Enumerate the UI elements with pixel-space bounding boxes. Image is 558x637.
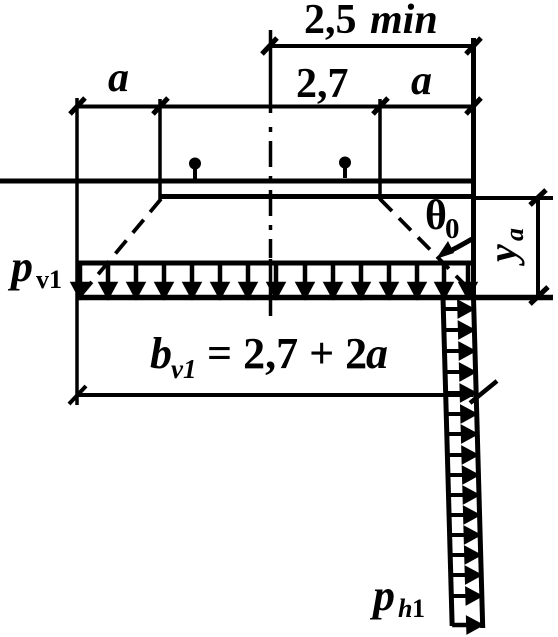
svg-text:a: a bbox=[500, 228, 529, 241]
ground line bbox=[0, 179, 474, 184]
svg-text:a: a bbox=[366, 329, 388, 378]
svg-text:0: 0 bbox=[445, 213, 460, 245]
svg-text:2,5: 2,5 bbox=[304, 0, 357, 43]
svg-text:θ: θ bbox=[425, 193, 447, 239]
left dashed spread line bbox=[80, 199, 161, 296]
svg-text:v1: v1 bbox=[36, 265, 62, 294]
tick bottom end y_a bbox=[530, 287, 548, 304]
extension / wall back face x=473.5 (upper part) bbox=[471, 38, 476, 300]
svg-text:b: b bbox=[150, 329, 172, 378]
svg-text:a: a bbox=[108, 55, 129, 101]
y_a top extension line bbox=[474, 196, 554, 200]
extension line x=380 bbox=[378, 99, 382, 200]
wall bottom line bbox=[452, 623, 484, 628]
label y_a (rotated) bbox=[480, 228, 529, 266]
extension line x=160 bbox=[158, 99, 162, 200]
p_v1 load band top line bbox=[77, 261, 474, 266]
p_h1 arrows bbox=[445, 303, 480, 632]
center line (track axis, dash-dot) bbox=[269, 30, 273, 113]
wall group (slight scan tilt) bbox=[443, 298, 484, 632]
svg-text:2,7: 2,7 bbox=[296, 61, 349, 107]
svg-text:y: y bbox=[480, 244, 525, 266]
dimension line a | 2,7 | a bbox=[77, 105, 474, 109]
tick right end b_v1 bbox=[470, 381, 497, 403]
b_v1 dimension line bbox=[77, 393, 474, 397]
tick at x=473 bbox=[466, 98, 481, 114]
svg-text:= 2,7 + 2: = 2,7 + 2 bbox=[207, 329, 367, 378]
svg-text:1: 1 bbox=[412, 594, 425, 623]
tick at x=380 bbox=[373, 98, 388, 114]
tick left end b_v1 bbox=[69, 386, 86, 404]
wall front face bbox=[443, 298, 452, 627]
rail left (dot + stem) bbox=[189, 158, 201, 170]
svg-text:v1: v1 bbox=[171, 354, 196, 384]
tick top end y_a bbox=[530, 190, 546, 205]
dimension line 2,5 min bbox=[269, 44, 474, 48]
theta0 angle arc with arrowhead bbox=[452, 239, 472, 250]
svg-text:a: a bbox=[411, 58, 432, 104]
rail right (dot + stem) bbox=[339, 157, 351, 169]
tick left end of 2,5 min bbox=[262, 38, 277, 54]
svg-text:p: p bbox=[369, 571, 395, 620]
p_v1 arrows bbox=[74, 265, 475, 296]
p_v1 load band bottom line (extends to y_a extension) bbox=[77, 295, 553, 301]
sleeper bottom line bbox=[160, 194, 474, 199]
svg-text:h: h bbox=[398, 594, 412, 623]
y_a dimension line bbox=[536, 198, 540, 298]
tick right end of 2,5 min bbox=[466, 38, 481, 54]
tick at x=77 bbox=[70, 98, 85, 114]
svg-text:p: p bbox=[7, 242, 33, 291]
wall back face lower part bbox=[474, 298, 483, 628]
svg-text:min: min bbox=[370, 0, 438, 43]
extension line left x=77 bbox=[75, 98, 79, 405]
right dashed spread line bbox=[380, 199, 473, 293]
tick at x=160 bbox=[153, 98, 168, 114]
